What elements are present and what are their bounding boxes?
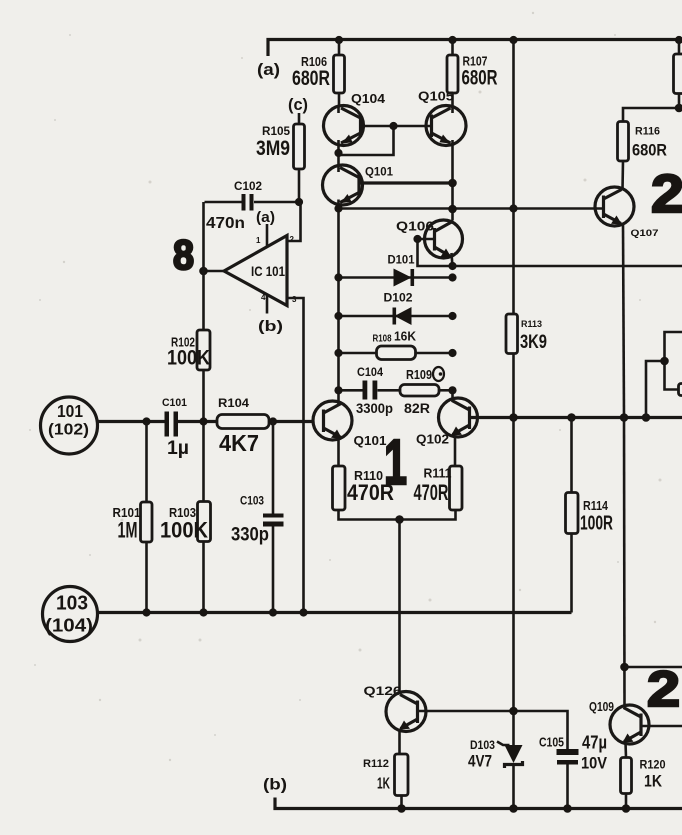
svg-text:Q102: Q102: [416, 433, 449, 447]
capacitor C103 330p: [231, 422, 284, 613]
resistor R105 3M9: [256, 124, 305, 202]
junction ground/C103: [269, 608, 277, 616]
junction ground/op-amp pin3: [299, 608, 307, 616]
svg-text:100K: 100K: [160, 518, 209, 543]
resistor R120 1K: [621, 758, 666, 809]
transistor Q105: [418, 89, 466, 221]
transistor Q106: [396, 220, 463, 268]
svg-text:16K: 16K: [394, 330, 416, 344]
junction C102/R105: [295, 198, 303, 206]
svg-text:1K: 1K: [377, 776, 391, 793]
svg-text:680R: 680R: [632, 142, 667, 160]
junction rail/C105: [563, 804, 572, 813]
node (a) top: [257, 60, 280, 79]
resistor R101 1M: [113, 422, 153, 613]
wire: input line: [98, 420, 167, 423]
svg-text:C102: C102: [234, 181, 262, 193]
svg-text:R112: R112: [363, 758, 389, 770]
junction R109 right: [448, 386, 456, 394]
svg-text:D101: D101: [388, 255, 416, 267]
resistor R103 100K: [160, 502, 211, 613]
resistor R116 680R: [618, 108, 680, 161]
svg-text:680R: 680R: [292, 66, 330, 90]
junction D102 left: [334, 312, 342, 320]
svg-text:4K7: 4K7: [219, 430, 259, 456]
junction right column top: [675, 104, 682, 113]
diode D101: [339, 255, 453, 287]
wire: tail down to Q126: [398, 520, 401, 693]
wire: Q104-Q105 base tie: [339, 126, 432, 155]
svg-text:(c): (c): [288, 95, 308, 114]
svg-text:R109: R109: [406, 368, 432, 382]
junction rail/right resistor: [675, 36, 682, 44]
svg-text:330p: 330p: [231, 524, 269, 546]
wire: emitter tail tie: [339, 510, 456, 520]
junction C104 left: [334, 386, 342, 394]
node (c) stub: [288, 95, 308, 124]
svg-text:R120: R120: [640, 758, 666, 772]
svg-text:Q105: Q105: [418, 89, 454, 104]
wire: top supply rail: [268, 40, 682, 57]
wire: ground line: [98, 611, 572, 614]
junction op-amp output: [199, 267, 208, 276]
wire: Q103 base to x452 column: [359, 181, 453, 184]
svg-text:470R: 470R: [347, 480, 394, 505]
wire: x513 vertical rail to R113: [512, 40, 515, 315]
junction R108 right: [448, 349, 456, 357]
junction tail: [395, 515, 404, 524]
zener diode D103 4V7: [468, 738, 523, 809]
svg-text:470n: 470n: [206, 215, 245, 232]
svg-text:3K9: 3K9: [520, 332, 547, 353]
svg-text:1: 1: [256, 236, 261, 245]
capacitor C104 3300p: [339, 367, 394, 416]
svg-text:C104: C104: [357, 367, 384, 379]
junction rail/D103: [509, 804, 518, 813]
svg-text:4: 4: [261, 293, 266, 302]
svg-text:R113: R113: [521, 319, 542, 330]
junction Q103 base / x452: [448, 179, 457, 188]
svg-text:Q101: Q101: [365, 165, 393, 179]
svg-text:4V7: 4V7: [468, 752, 492, 771]
transistor Q103 cascode: [323, 165, 394, 403]
junction y208/x338: [334, 204, 342, 212]
node (b) bottom stub and bottom rail: [263, 777, 682, 809]
junction y208/x452: [448, 205, 457, 214]
transistor Q102: [416, 390, 478, 466]
svg-text:470R: 470R: [414, 480, 449, 505]
resistor R104 4K7: [217, 396, 314, 456]
junction x624/y667: [620, 663, 629, 672]
wire: Q106 base loop: [418, 239, 453, 266]
junction R108 left: [334, 349, 342, 357]
junction Q104 collector tie: [334, 149, 342, 157]
svg-text:100K: 100K: [167, 346, 210, 370]
junction y417/R114: [567, 413, 576, 422]
svg-text:47µ: 47µ: [582, 733, 607, 753]
junction input/C103: [269, 417, 277, 425]
capacitor C101 1u: [162, 397, 217, 459]
op-amp pin (a) stub: [256, 210, 275, 247]
wire: long line y208 to Q107 base: [339, 207, 603, 210]
svg-text:Q107: Q107: [631, 228, 659, 239]
transistor Q101: [313, 401, 387, 466]
wire: y667 branch to right edge: [625, 666, 682, 669]
transistor Q126: [364, 686, 427, 754]
wire: op-amp pin2 to C102 node: [287, 203, 301, 241]
junction y208/x513: [509, 204, 517, 212]
wire: line y417 to right edge: [514, 416, 682, 419]
resistor R114 100R: [566, 418, 614, 613]
svg-text:R111: R111: [424, 467, 452, 481]
junction rail/R112: [397, 804, 406, 813]
svg-text:C101: C101: [162, 397, 187, 409]
svg-text:8: 8: [173, 231, 194, 278]
wire: feedback column C102 to R102: [202, 202, 205, 330]
junction right branch: [660, 357, 669, 366]
svg-text:2: 2: [290, 235, 295, 244]
svg-text:IC 101: IC 101: [251, 264, 285, 279]
svg-text:C105: C105: [539, 736, 564, 750]
junction bases Q104/Q105: [389, 122, 397, 130]
svg-text:10V: 10V: [581, 754, 608, 773]
junction D101 right: [448, 273, 456, 281]
svg-text:(102): (102): [48, 422, 89, 439]
resistor R108 16K: [339, 330, 453, 360]
junction y417/Q107 emitter: [620, 413, 629, 422]
capacitor C105 47u 10V: [539, 733, 608, 809]
svg-text:(a): (a): [257, 60, 280, 79]
svg-text:Q126: Q126: [364, 686, 402, 698]
junction input/R101: [142, 417, 150, 425]
resistor R110 470R: [333, 466, 395, 510]
wire: Q126 base to x513 and C105: [418, 711, 568, 749]
junction rail/R106: [335, 36, 343, 44]
wire: x513 vertical lower: [512, 418, 515, 746]
junction D101 left: [334, 273, 342, 281]
svg-text:3M9: 3M9: [256, 137, 290, 160]
svg-text:101: 101: [57, 401, 83, 421]
svg-text:100R: 100R: [580, 513, 613, 535]
svg-text:3: 3: [292, 295, 297, 304]
wire: op-amp pin3 down to ground line: [287, 298, 304, 613]
resistor R112 1K: [363, 754, 408, 809]
svg-text:(b): (b): [258, 319, 283, 335]
svg-text:Q104: Q104: [351, 91, 386, 106]
svg-text:C103: C103: [240, 494, 264, 508]
svg-text:1M: 1M: [118, 518, 138, 543]
resistor R107 680R: [447, 40, 498, 108]
resistor R109 82R: [378, 367, 453, 416]
junction Q106 base: [413, 235, 421, 243]
junction ground/R103: [199, 608, 207, 616]
resistor R113 3K9: [506, 314, 547, 418]
svg-text:3300p: 3300p: [356, 401, 393, 416]
transistor Q107: [595, 161, 659, 418]
svg-text:(104): (104): [45, 616, 93, 636]
junction input/R103: [199, 417, 207, 425]
svg-text:R105: R105: [262, 124, 290, 138]
diode D102: [339, 293, 453, 326]
svg-text:1µ: 1µ: [167, 438, 189, 459]
resistor R117 cut at edge: [674, 40, 682, 109]
svg-text:2: 2: [647, 661, 680, 717]
svg-text:R116: R116: [635, 126, 660, 138]
junction Q126 base/x513: [509, 707, 518, 716]
svg-text:(a): (a): [256, 210, 275, 226]
resistor at right edge cut: [679, 384, 682, 396]
wire: x624 column below y417: [623, 418, 626, 707]
svg-text:(b): (b): [263, 777, 287, 794]
wire: right edge branch up: [646, 332, 682, 418]
resistor R102 100K: [167, 330, 210, 502]
junction rail/x513: [509, 36, 517, 44]
svg-text:82R: 82R: [404, 401, 430, 416]
op-amp IC101: [224, 235, 297, 306]
input terminal 101 (102): [41, 397, 98, 454]
svg-text:2: 2: [651, 164, 682, 224]
svg-text:103: 103: [56, 592, 88, 615]
op-amp pin (b) stub: [258, 295, 283, 335]
wire: Q102 base to x513: [470, 416, 514, 419]
junction y417/right branch: [642, 413, 651, 422]
capacitor C102 470n: [205, 181, 300, 232]
svg-text:680R: 680R: [462, 66, 498, 90]
junction rail/R107: [448, 36, 456, 44]
svg-text:R114: R114: [583, 498, 609, 513]
junction rail/R120: [622, 804, 631, 813]
svg-text:1K: 1K: [644, 772, 663, 791]
junction y417/x513: [509, 413, 518, 422]
resistor R106 680R: [292, 40, 345, 107]
terminal 103 (104): [43, 587, 98, 642]
svg-text:R108: R108: [373, 334, 392, 345]
resistor R111 470R: [414, 466, 463, 510]
junction D102 right: [448, 312, 456, 320]
svg-text:D102: D102: [384, 293, 413, 305]
wire: long line y266 to right edge: [453, 265, 682, 268]
transistor Q104: [324, 91, 386, 166]
junction Q106 loop/column: [448, 262, 456, 270]
svg-text:Q109: Q109: [589, 700, 614, 714]
wire: op-amp output to feedback column: [204, 270, 225, 273]
svg-text:D103: D103: [470, 738, 495, 752]
svg-text:R104: R104: [218, 396, 249, 410]
junction ground/R101: [142, 608, 150, 616]
transistor Q109: [589, 700, 682, 758]
svg-text:Q101: Q101: [354, 434, 387, 448]
